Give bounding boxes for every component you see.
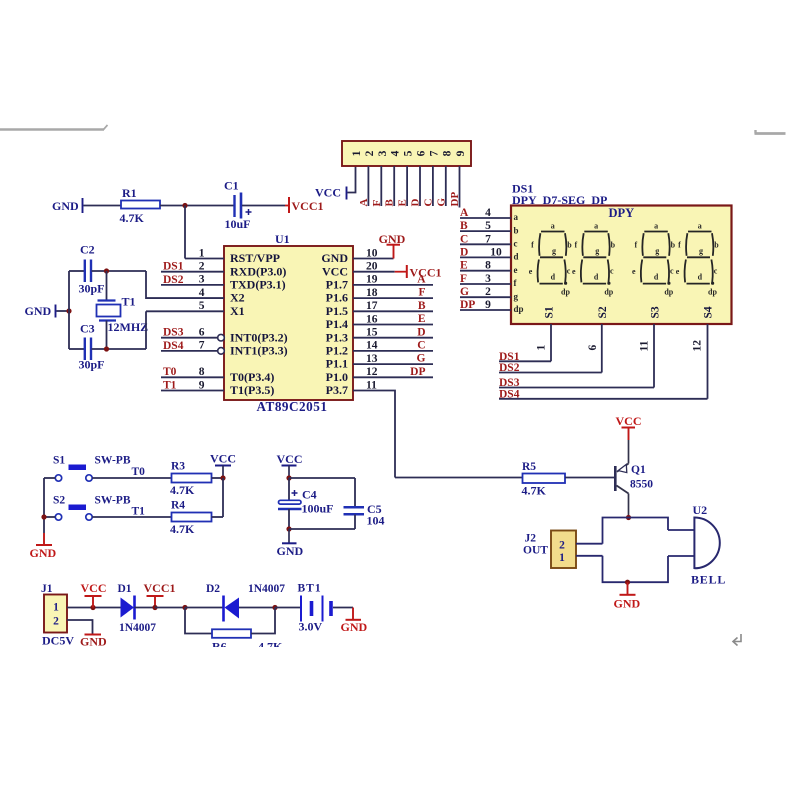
svg-text:e: e bbox=[632, 267, 636, 276]
junction bbox=[220, 475, 225, 480]
wire DP bbox=[460, 309, 511, 311]
resistor R6 bbox=[212, 629, 251, 638]
capacitor C4 bbox=[279, 500, 302, 504]
svg-text:20: 20 bbox=[366, 261, 378, 273]
svg-text:P1.1: P1.1 bbox=[326, 357, 348, 371]
wire G bbox=[460, 296, 511, 298]
svg-text:7: 7 bbox=[199, 340, 205, 352]
wire bbox=[367, 166, 369, 206]
svg-text:16: 16 bbox=[366, 313, 378, 325]
svg-text:VCC: VCC bbox=[315, 186, 341, 200]
svg-text:13: 13 bbox=[366, 353, 378, 365]
svg-text:S1: S1 bbox=[544, 306, 556, 318]
svg-text:8: 8 bbox=[441, 150, 453, 156]
svg-text:TXD(P3.1): TXD(P3.1) bbox=[230, 278, 286, 292]
svg-text:15: 15 bbox=[366, 327, 378, 339]
svg-text:S1: S1 bbox=[53, 455, 65, 467]
wire bbox=[289, 528, 355, 530]
battery BT1 bbox=[300, 596, 302, 622]
svg-text:104: 104 bbox=[367, 514, 385, 528]
svg-text:T1(P3.5): T1(P3.5) bbox=[230, 383, 274, 397]
ic U1 body bbox=[224, 246, 353, 400]
svg-text:C: C bbox=[417, 340, 425, 352]
svg-text:9: 9 bbox=[199, 379, 205, 391]
svg-text:D: D bbox=[410, 199, 422, 207]
wire bbox=[145, 311, 147, 349]
wire B bbox=[460, 230, 511, 232]
svg-text:4: 4 bbox=[390, 150, 402, 156]
ground GND (BT1) bbox=[352, 608, 354, 620]
diode D2 bbox=[222, 596, 225, 622]
wire bbox=[44, 477, 55, 479]
svg-text:6: 6 bbox=[416, 150, 428, 156]
svg-text:GND: GND bbox=[25, 304, 52, 318]
wire DS4 bbox=[499, 398, 708, 400]
svg-text:GND: GND bbox=[341, 620, 368, 634]
svg-text:4.7K: 4.7K bbox=[170, 483, 195, 497]
svg-text:c: c bbox=[714, 267, 718, 276]
svg-text:a: a bbox=[514, 212, 519, 222]
svg-text:J2: J2 bbox=[525, 533, 537, 545]
svg-text:18: 18 bbox=[366, 287, 378, 299]
wire bbox=[445, 166, 447, 206]
svg-text:dp: dp bbox=[664, 288, 673, 297]
wire bbox=[459, 166, 461, 208]
svg-text:4.7K: 4.7K bbox=[120, 211, 145, 225]
wire pin4 bbox=[146, 297, 224, 299]
wire bbox=[395, 477, 523, 479]
svg-text:b: b bbox=[671, 241, 676, 250]
svg-text:C2: C2 bbox=[80, 243, 95, 257]
svg-text:11: 11 bbox=[366, 379, 377, 391]
wire bbox=[146, 271, 224, 298]
wire pin14 bbox=[353, 350, 433, 352]
junction bbox=[625, 580, 630, 585]
svg-text:GND: GND bbox=[614, 597, 641, 611]
wire bbox=[576, 543, 603, 545]
svg-text:8550: 8550 bbox=[630, 479, 653, 491]
seven-segment digit 2 bbox=[581, 232, 611, 285]
wire pin11 bbox=[353, 391, 395, 478]
svg-text:P1.2: P1.2 bbox=[326, 344, 348, 358]
svg-text:GND: GND bbox=[52, 199, 79, 213]
svg-text:AT89C2051: AT89C2051 bbox=[257, 399, 328, 414]
svg-text:g: g bbox=[655, 247, 659, 256]
connector J1 bbox=[44, 595, 67, 633]
wire DS3 bbox=[499, 387, 654, 389]
svg-text:a: a bbox=[698, 222, 702, 231]
svg-text:dp: dp bbox=[514, 304, 524, 314]
svg-text:VCC: VCC bbox=[616, 414, 642, 428]
svg-text:f: f bbox=[634, 241, 637, 250]
svg-text:DC5V: DC5V bbox=[42, 634, 74, 648]
svg-text:c: c bbox=[670, 267, 674, 276]
ground GND (J1) bbox=[85, 634, 102, 636]
svg-text:VCC1: VCC1 bbox=[292, 199, 324, 213]
wire bbox=[92, 477, 171, 479]
junction bbox=[286, 526, 291, 531]
wire bbox=[251, 608, 275, 634]
svg-text:f: f bbox=[678, 241, 681, 250]
wire bbox=[69, 270, 84, 272]
resistor R4 bbox=[172, 513, 212, 522]
wire pin2 bbox=[161, 271, 224, 273]
svg-text:E: E bbox=[397, 199, 409, 206]
svg-text:3.0V: 3.0V bbox=[299, 620, 323, 634]
wire bbox=[333, 607, 353, 609]
wire pin5 bbox=[146, 310, 224, 312]
svg-text:INT0(P3.2): INT0(P3.2) bbox=[230, 330, 288, 344]
svg-text:30pF: 30pF bbox=[79, 282, 105, 296]
svg-text:1: 1 bbox=[199, 247, 205, 259]
svg-text:f: f bbox=[574, 241, 577, 250]
wire bbox=[106, 271, 108, 301]
wire bbox=[419, 166, 421, 206]
wire pin6 bbox=[161, 337, 218, 339]
gray return mark bbox=[734, 634, 741, 642]
svg-text:C3: C3 bbox=[80, 322, 95, 336]
wire S4 drop bbox=[707, 324, 709, 399]
power VCC1 terminal (D1) bbox=[154, 596, 156, 608]
svg-text:BT1: BT1 bbox=[298, 583, 322, 595]
svg-text:X2: X2 bbox=[230, 291, 245, 305]
junction bbox=[182, 605, 187, 610]
inversion bubble pin6 bbox=[218, 334, 225, 341]
svg-text:1N4007: 1N4007 bbox=[248, 583, 285, 595]
svg-text:2: 2 bbox=[199, 261, 205, 273]
wire bbox=[57, 310, 70, 312]
wire pin18 bbox=[353, 297, 433, 299]
wire bbox=[239, 607, 275, 609]
svg-text:6: 6 bbox=[587, 345, 599, 351]
svg-text:GND: GND bbox=[30, 546, 57, 560]
capacitor C2 bbox=[84, 260, 86, 283]
svg-text:D1: D1 bbox=[118, 583, 132, 595]
svg-text:GND: GND bbox=[321, 251, 348, 265]
svg-text:e: e bbox=[676, 267, 680, 276]
wire bbox=[67, 620, 93, 634]
wire bbox=[184, 206, 186, 259]
wire bbox=[288, 509, 290, 529]
svg-text:P1.4: P1.4 bbox=[326, 317, 348, 331]
svg-text:1N4007: 1N4007 bbox=[119, 622, 156, 634]
svg-text:9: 9 bbox=[455, 150, 467, 156]
svg-text:dp: dp bbox=[561, 288, 570, 297]
wire bbox=[668, 529, 694, 531]
svg-text:11: 11 bbox=[639, 340, 651, 351]
wire bell loop bottom bbox=[603, 556, 669, 582]
buzzer U2 BELL bbox=[693, 517, 695, 570]
svg-text:S3: S3 bbox=[650, 306, 662, 318]
junction bbox=[104, 268, 109, 273]
switch S2 bbox=[69, 505, 87, 511]
svg-text:4.7K: 4.7K bbox=[522, 484, 547, 498]
svg-text:G: G bbox=[417, 353, 426, 365]
svg-text:F: F bbox=[371, 200, 383, 207]
svg-text:VCC1: VCC1 bbox=[410, 266, 442, 280]
svg-text:30pF: 30pF bbox=[79, 358, 105, 372]
wire bbox=[432, 166, 434, 206]
wire bbox=[44, 516, 55, 518]
junction bbox=[41, 514, 46, 519]
svg-text:c: c bbox=[514, 239, 518, 249]
wire pin15 bbox=[353, 337, 433, 339]
wire A bbox=[460, 217, 511, 219]
svg-text:12: 12 bbox=[692, 340, 704, 352]
svg-text:RST/VPP: RST/VPP bbox=[230, 251, 280, 265]
switch S1 bbox=[69, 465, 87, 471]
svg-text:GND: GND bbox=[277, 544, 304, 558]
svg-text:VCC: VCC bbox=[210, 452, 236, 466]
svg-text:VCC: VCC bbox=[81, 581, 107, 595]
wire pin16 bbox=[353, 324, 433, 326]
gray rule top-left bbox=[0, 128, 104, 130]
svg-text:dp: dp bbox=[708, 288, 717, 297]
wire DS1 bbox=[499, 360, 551, 362]
svg-text:b: b bbox=[514, 225, 519, 235]
svg-text:12: 12 bbox=[366, 366, 378, 378]
svg-text:dp: dp bbox=[604, 288, 613, 297]
svg-text:d: d bbox=[654, 273, 659, 282]
svg-text:f: f bbox=[531, 241, 534, 250]
wire bbox=[185, 607, 224, 609]
svg-text:SW-PB: SW-PB bbox=[95, 495, 131, 507]
svg-text:a: a bbox=[551, 222, 555, 231]
svg-text:3: 3 bbox=[199, 274, 205, 286]
wire F bbox=[460, 283, 511, 285]
svg-text:T1: T1 bbox=[132, 506, 146, 518]
svg-text:1: 1 bbox=[53, 602, 59, 614]
value label (cut off) bbox=[212, 640, 283, 654]
svg-text:d: d bbox=[514, 252, 519, 262]
wire bbox=[354, 478, 356, 507]
wire bbox=[84, 205, 122, 207]
wire bbox=[354, 515, 356, 530]
wire bbox=[668, 555, 694, 557]
wire bbox=[628, 440, 630, 464]
svg-text:C4: C4 bbox=[302, 488, 317, 502]
wire bypass loop bbox=[185, 608, 212, 634]
svg-text:E: E bbox=[418, 313, 426, 325]
wire bbox=[222, 478, 224, 517]
svg-text:DPY: DPY bbox=[609, 206, 635, 220]
svg-text:S2: S2 bbox=[597, 306, 609, 318]
wire bbox=[275, 607, 301, 609]
svg-text:C: C bbox=[422, 199, 434, 207]
svg-text:7: 7 bbox=[428, 150, 440, 156]
svg-text:100uF: 100uF bbox=[302, 502, 334, 516]
svg-text:S2: S2 bbox=[53, 495, 65, 507]
svg-text:b: b bbox=[611, 241, 616, 250]
svg-text:8: 8 bbox=[199, 366, 205, 378]
diode D1 bbox=[121, 598, 135, 618]
svg-text:R5: R5 bbox=[522, 461, 536, 473]
transistor Q1 8550 bbox=[614, 466, 617, 491]
wire bbox=[393, 166, 395, 206]
svg-text:P1.6: P1.6 bbox=[326, 291, 348, 305]
seven-segment digit 4 bbox=[685, 232, 715, 285]
svg-text:5: 5 bbox=[403, 150, 415, 156]
svg-text:R3: R3 bbox=[171, 461, 185, 473]
wire S1 drop bbox=[550, 324, 552, 361]
junction bbox=[66, 308, 71, 313]
resistor R5 bbox=[523, 474, 566, 484]
svg-text:b: b bbox=[714, 241, 719, 250]
wire bbox=[289, 477, 355, 479]
power VCC1 terminal (pin20) bbox=[395, 271, 407, 273]
svg-text:12MHZ: 12MHZ bbox=[108, 320, 149, 334]
svg-text:RXD(P3.0): RXD(P3.0) bbox=[230, 264, 286, 278]
wire D bbox=[460, 256, 511, 258]
ground GND (switches) bbox=[43, 533, 45, 545]
svg-text:e: e bbox=[514, 265, 518, 275]
svg-text:17: 17 bbox=[366, 300, 378, 312]
wire pin19 bbox=[353, 284, 433, 286]
svg-text:A: A bbox=[358, 199, 370, 207]
svg-text:S4: S4 bbox=[703, 306, 715, 318]
wire bbox=[242, 205, 285, 207]
junction bbox=[626, 515, 631, 520]
connector header 1x9 bbox=[342, 141, 471, 166]
wire bbox=[155, 607, 185, 609]
svg-text:B: B bbox=[384, 199, 396, 207]
svg-text:J1: J1 bbox=[41, 583, 53, 595]
svg-text:5: 5 bbox=[199, 300, 205, 312]
svg-text:c: c bbox=[610, 267, 614, 276]
svg-text:2: 2 bbox=[559, 539, 565, 551]
svg-text:P1.3: P1.3 bbox=[326, 330, 348, 344]
svg-text:DP: DP bbox=[449, 192, 461, 207]
wire pin8 bbox=[161, 376, 224, 378]
wire bbox=[406, 166, 408, 206]
svg-text:b: b bbox=[567, 241, 572, 250]
wire C bbox=[460, 243, 511, 245]
resistor R3 bbox=[172, 474, 212, 483]
svg-text:14: 14 bbox=[366, 340, 378, 352]
svg-text:2: 2 bbox=[364, 150, 376, 156]
svg-text:19: 19 bbox=[366, 274, 378, 286]
svg-text:4.7K: 4.7K bbox=[170, 522, 195, 536]
wire pin7 bbox=[161, 350, 218, 352]
svg-text:P1.7: P1.7 bbox=[326, 278, 348, 292]
capacitor C1 bbox=[233, 195, 235, 217]
wire bbox=[67, 607, 121, 609]
svg-text:P1.0: P1.0 bbox=[326, 370, 348, 384]
svg-text:6: 6 bbox=[199, 327, 205, 339]
wire pin3 bbox=[161, 284, 224, 286]
wire bbox=[380, 166, 382, 206]
svg-text:P3.7: P3.7 bbox=[326, 383, 348, 397]
seven-segment digit 3 bbox=[641, 232, 671, 285]
seven-segment digit 1 bbox=[538, 232, 568, 285]
svg-text:T0: T0 bbox=[132, 466, 146, 478]
svg-text:e: e bbox=[529, 267, 533, 276]
wire DS2 bbox=[499, 372, 602, 374]
svg-text:a: a bbox=[654, 222, 658, 231]
wire bell loop top bbox=[603, 518, 669, 544]
svg-text:4: 4 bbox=[199, 287, 205, 299]
svg-text:2: 2 bbox=[53, 616, 59, 628]
wire left rail (switches) bbox=[43, 478, 45, 533]
svg-text:DP: DP bbox=[410, 366, 425, 378]
svg-text:VCC1: VCC1 bbox=[144, 581, 176, 595]
svg-text:SW-PB: SW-PB bbox=[95, 455, 131, 467]
capacitor C5 bbox=[344, 506, 365, 509]
wire bbox=[92, 270, 147, 272]
gray rule top-right bbox=[755, 132, 786, 135]
svg-text:T1: T1 bbox=[122, 295, 136, 309]
power VCC1 terminal bbox=[285, 205, 289, 207]
svg-text:a: a bbox=[594, 222, 598, 231]
svg-text:c: c bbox=[567, 267, 571, 276]
svg-text:g: g bbox=[699, 247, 703, 256]
wire bbox=[288, 478, 290, 501]
svg-text:OUT: OUT bbox=[523, 545, 548, 557]
wire bbox=[135, 607, 156, 609]
wire pin13 bbox=[353, 363, 433, 365]
svg-text:VCC: VCC bbox=[277, 452, 303, 466]
wire pin10 bbox=[353, 258, 394, 260]
svg-text:d: d bbox=[551, 273, 556, 282]
svg-text:U1: U1 bbox=[275, 232, 290, 246]
svg-text:D2: D2 bbox=[206, 583, 220, 595]
svg-text:1: 1 bbox=[351, 150, 363, 156]
svg-text:d: d bbox=[594, 273, 599, 282]
svg-text:P1.5: P1.5 bbox=[326, 304, 348, 318]
wire bbox=[160, 205, 234, 207]
wire S3 drop bbox=[653, 324, 655, 388]
svg-text:g: g bbox=[595, 247, 599, 256]
svg-text:VCC: VCC bbox=[322, 264, 348, 278]
svg-text:Q1: Q1 bbox=[631, 464, 646, 476]
svg-text:A: A bbox=[417, 274, 426, 286]
wire bbox=[106, 321, 108, 350]
ground GND (C4) bbox=[288, 529, 290, 543]
svg-text:1: 1 bbox=[536, 345, 548, 351]
svg-text:e: e bbox=[572, 267, 576, 276]
svg-text:GND: GND bbox=[80, 635, 107, 649]
svg-text:3: 3 bbox=[377, 150, 389, 156]
wire E bbox=[460, 270, 511, 272]
svg-text:g: g bbox=[514, 291, 519, 301]
ground GND (bell) bbox=[627, 582, 629, 594]
svg-text:C1: C1 bbox=[224, 179, 239, 193]
svg-text:D: D bbox=[417, 326, 425, 338]
junction bbox=[90, 605, 95, 610]
wire bbox=[92, 516, 171, 518]
svg-text:B: B bbox=[418, 300, 426, 312]
svg-text:R1: R1 bbox=[122, 186, 137, 200]
svg-text:g: g bbox=[552, 247, 556, 256]
wire pin1 bbox=[185, 258, 224, 260]
capacitor C3 bbox=[84, 338, 86, 361]
svg-text:F: F bbox=[418, 287, 425, 299]
display DS1 body bbox=[511, 206, 732, 325]
svg-text:BELL: BELL bbox=[691, 573, 726, 587]
crystal T1 bbox=[98, 299, 116, 301]
wire bbox=[92, 348, 147, 350]
wire pin9 bbox=[161, 390, 224, 392]
svg-text:1: 1 bbox=[559, 552, 565, 564]
junction bbox=[104, 346, 109, 351]
svg-text:10uF: 10uF bbox=[225, 217, 251, 231]
junction bbox=[286, 475, 291, 480]
junction bbox=[272, 605, 277, 610]
wire bbox=[576, 555, 603, 557]
resistor R1 bbox=[121, 201, 160, 209]
wire pin20 bbox=[353, 271, 395, 273]
svg-text:R4: R4 bbox=[171, 500, 185, 512]
